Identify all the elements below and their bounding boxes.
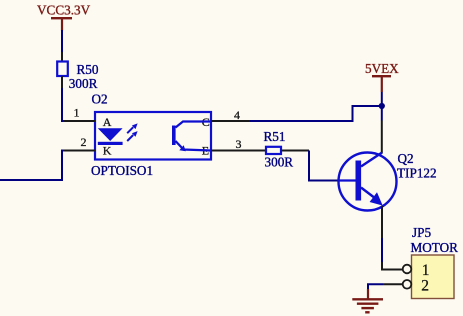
wire Q2 emitter to JP5 pin 1 bbox=[382, 206, 403, 270]
svg-text:Q2: Q2 bbox=[398, 151, 414, 166]
svg-text:4: 4 bbox=[234, 108, 240, 122]
wire junction to Q2 collector bbox=[381, 106, 383, 154]
O2 pin 3 (E) bbox=[202, 137, 246, 157]
svg-text:TIP122: TIP122 bbox=[397, 165, 437, 180]
wire O2 pin 4 to 5VEX node bbox=[250, 106, 382, 121]
svg-text:300R: 300R bbox=[69, 76, 98, 91]
O2 pin 1 (A) bbox=[63, 106, 112, 129]
svg-text:R51: R51 bbox=[264, 129, 286, 144]
wire JP5 pin 2 to ground bbox=[368, 284, 383, 299]
wire O2 pin 2 to left edge bbox=[0, 151, 63, 181]
power VCC3.3V bbox=[37, 3, 91, 31]
resistor R51 bbox=[246, 147, 309, 154]
wire 5VEX to junction bbox=[381, 92, 383, 106]
svg-text:1: 1 bbox=[74, 106, 80, 120]
svg-text:K: K bbox=[103, 144, 112, 158]
svg-text:MOTOR: MOTOR bbox=[411, 240, 459, 255]
ground bbox=[352, 299, 383, 312]
svg-text:JP5: JP5 bbox=[412, 225, 431, 240]
svg-text:300R: 300R bbox=[265, 155, 294, 170]
resistor R50 bbox=[57, 62, 68, 89]
svg-text:O2: O2 bbox=[92, 92, 108, 107]
power 5VEX bbox=[365, 61, 399, 92]
svg-text:2: 2 bbox=[81, 135, 87, 149]
O2 internal LED bbox=[98, 128, 123, 145]
node junction 5VEX/collector bbox=[379, 103, 385, 109]
svg-text:5VEX: 5VEX bbox=[365, 61, 399, 76]
O2 pin 2 (K) bbox=[63, 135, 112, 158]
svg-text:R50: R50 bbox=[77, 62, 99, 77]
wire VCC3.3V to R50 bbox=[61, 30, 63, 62]
wire R51 to Q2 base bbox=[309, 151, 339, 181]
wire R50 to O2 pin 1 bbox=[62, 88, 66, 121]
transistor Q2 bbox=[339, 153, 397, 211]
svg-text:OPTOISO1: OPTOISO1 bbox=[91, 163, 153, 178]
O2 pin 4 (C) bbox=[202, 108, 250, 129]
optocoupler O2 body bbox=[95, 112, 211, 160]
connector JP5 body bbox=[412, 255, 455, 299]
O2 light emission arrows bbox=[127, 123, 137, 141]
JP5 pin 1 bbox=[403, 262, 430, 279]
svg-text:A: A bbox=[103, 115, 112, 129]
svg-text:VCC3.3V: VCC3.3V bbox=[37, 3, 91, 18]
JP5 pin 2 bbox=[383, 277, 429, 294]
O2 phototransistor bbox=[172, 122, 211, 152]
svg-text:3: 3 bbox=[236, 137, 242, 151]
svg-text:2: 2 bbox=[421, 277, 429, 294]
